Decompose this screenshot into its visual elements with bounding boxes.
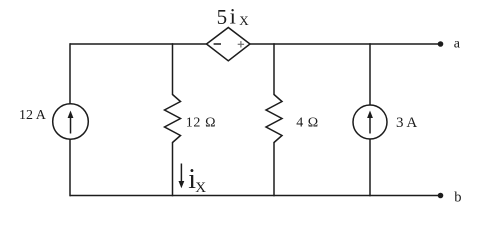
node b terminal dot [438,193,444,199]
resistor R2 4 ohm [266,95,282,143]
svg-text:X: X [239,13,249,28]
wire 4-ohm branch lower [273,142,275,196]
current arrow iX [179,164,185,189]
svg-text:4 Ω: 4 Ω [296,115,318,130]
wire 12-ohm branch upper [172,43,174,95]
node a terminal dot [438,41,444,47]
wire bottom segment [70,195,439,197]
svg-text:5: 5 [217,5,228,29]
svg-text:b: b [454,189,461,205]
wire 12-ohm branch lower [172,142,174,196]
plus sign inside diamond [238,41,244,47]
current source I2 [353,105,387,139]
svg-text:12 Ω: 12 Ω [186,116,216,131]
dependent source U1 diamond [207,28,251,61]
minus sign inside diamond [214,43,221,45]
svg-text:12 A: 12 A [19,108,47,123]
svg-text:a: a [454,36,461,51]
wire 3A branch lower [369,139,371,197]
wire 3A branch upper [369,43,371,105]
wire left branch upper [69,43,71,103]
current source I1 [53,104,89,140]
wire top-left segment [70,43,207,45]
svg-text:3 A: 3 A [396,115,417,131]
svg-text:i: i [230,4,236,29]
wire left branch lower [69,139,71,196]
svg-text:X: X [195,180,206,196]
resistor R1 12 ohm [165,95,181,143]
wire top-right segment [250,43,439,45]
wire 4-ohm branch upper [273,43,275,95]
